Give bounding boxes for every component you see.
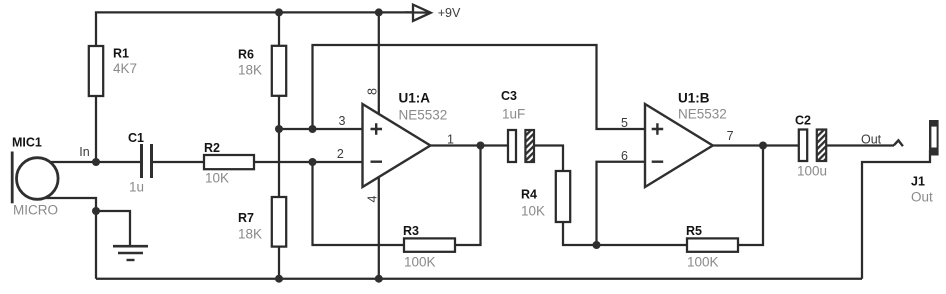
svg-text:100u: 100u [797, 164, 827, 179]
svg-text:NE5532: NE5532 [678, 107, 727, 122]
svg-text:4K7: 4K7 [113, 61, 137, 76]
junction R4 R5 pin6 [593, 241, 601, 249]
microphone MIC1 [12, 136, 58, 218]
wire R2 to pin 2 [254, 161, 363, 163]
svg-text:C1: C1 [128, 131, 144, 145]
junction pin3 top run [309, 125, 317, 133]
svg-text:R3: R3 [403, 224, 419, 238]
junction top rail R6 [275, 8, 283, 16]
wire R3 to output node [455, 146, 481, 246]
junction R7 bottom rail [275, 275, 283, 283]
wire U1:A output to C3 [430, 144, 508, 146]
svg-text:MICRO: MICRO [13, 203, 58, 218]
wire R5 to output node of U1:B [738, 146, 763, 246]
wire top +9V rail with R1 top lead [96, 12, 412, 46]
svg-text:10K: 10K [521, 204, 545, 219]
junction pin4 bottom rail [375, 275, 383, 283]
svg-text:+9V: +9V [438, 6, 461, 20]
wire U1:B output to C2 [713, 144, 799, 146]
capacitor C1 1u [128, 131, 152, 195]
svg-text:7: 7 [727, 129, 734, 143]
wire J1 sleeve to ground rail [862, 150, 930, 279]
wire MIC1 lower terminal to ground rail [40, 198, 96, 279]
resistor R5 100K [686, 224, 738, 270]
svg-text:R6: R6 [238, 48, 254, 62]
junction pin2 feedback [309, 158, 317, 166]
junction node In [92, 158, 100, 166]
wire ground branch [96, 211, 130, 246]
wire U1:A pin 8 power segment [378, 12, 380, 114]
svg-text:5: 5 [621, 116, 628, 130]
resistor R4 10K [521, 171, 570, 222]
svg-text:J1: J1 [911, 175, 925, 189]
wire node In to C1 [96, 161, 141, 163]
svg-text:18K: 18K [238, 63, 262, 78]
wire bias to non-inverting inputs (pin3 to pin5 top run) [313, 45, 646, 129]
svg-text:In: In [79, 145, 89, 159]
wire U1:A feedback pin2 to R3 [313, 162, 405, 245]
junction ground branch [92, 207, 100, 215]
junction U1:B output R5 [759, 142, 767, 150]
svg-text:1: 1 [447, 133, 454, 147]
wire C2 to Out terminal [827, 144, 894, 146]
svg-text:U1:B: U1:B [678, 91, 710, 106]
connector J1 [911, 120, 939, 205]
wire C3 to R4 [534, 146, 563, 172]
svg-text:MIC1: MIC1 [12, 136, 42, 150]
resistor R1 4K7 [89, 46, 137, 96]
ground [113, 246, 148, 260]
svg-text:100K: 100K [687, 255, 719, 270]
svg-text:R7: R7 [238, 211, 254, 225]
svg-text:1u: 1u [129, 180, 144, 195]
resistor R2 10K [204, 141, 254, 186]
svg-text:U1:A: U1:A [399, 91, 431, 106]
svg-text:18K: 18K [238, 227, 262, 242]
capacitor C2 100u [795, 114, 827, 179]
wire junction to R5 [597, 244, 688, 246]
svg-text:R5: R5 [686, 224, 702, 238]
capacitor C3 1uF [501, 89, 534, 162]
resistor R3 100K [403, 224, 455, 270]
svg-text:4: 4 [366, 195, 380, 202]
svg-text:R2: R2 [204, 141, 220, 155]
svg-text:R1: R1 [113, 47, 129, 61]
wire R6/R7 divider to pin 3 [279, 128, 363, 130]
svg-text:C3: C3 [501, 89, 517, 103]
svg-text:3: 3 [339, 114, 346, 128]
svg-text:NE5532: NE5532 [399, 108, 448, 123]
wire C1 to R2 [152, 161, 204, 163]
wire pin 6 feedback [597, 162, 646, 245]
power +9V arrow [405, 5, 461, 21]
op-amp U1:B NE5532 [645, 91, 727, 188]
junction bias divider pin3 [275, 125, 283, 133]
resistor R7 18K [238, 197, 286, 247]
resistor R6 18K [238, 46, 286, 96]
svg-text:100K: 100K [404, 255, 436, 270]
net Out terminal caret [894, 140, 903, 146]
wire MIC1 upper terminal to node In [40, 161, 96, 163]
svg-text:C2: C2 [795, 114, 811, 128]
svg-text:10K: 10K [205, 171, 229, 186]
wire R6 leads [278, 12, 280, 129]
svg-text:2: 2 [337, 147, 344, 161]
svg-text:R4: R4 [521, 188, 537, 202]
junction U1:A output R3 [477, 142, 485, 150]
wire R1 bottom lead to node In [95, 96, 97, 162]
svg-text:1uF: 1uF [502, 107, 525, 122]
junction top rail power line [375, 8, 383, 16]
svg-text:Out: Out [911, 190, 933, 205]
svg-text:8: 8 [366, 88, 380, 95]
wire U1:A pin 4 power segment [378, 176, 380, 279]
svg-text:6: 6 [621, 149, 628, 163]
wire bottom ground rail [96, 278, 862, 280]
svg-text:Out: Out [861, 133, 882, 147]
wire R7 leads [278, 129, 280, 279]
op-amp U1:A NE5532 [363, 91, 448, 188]
wire R4 bottom to junction [563, 222, 597, 245]
